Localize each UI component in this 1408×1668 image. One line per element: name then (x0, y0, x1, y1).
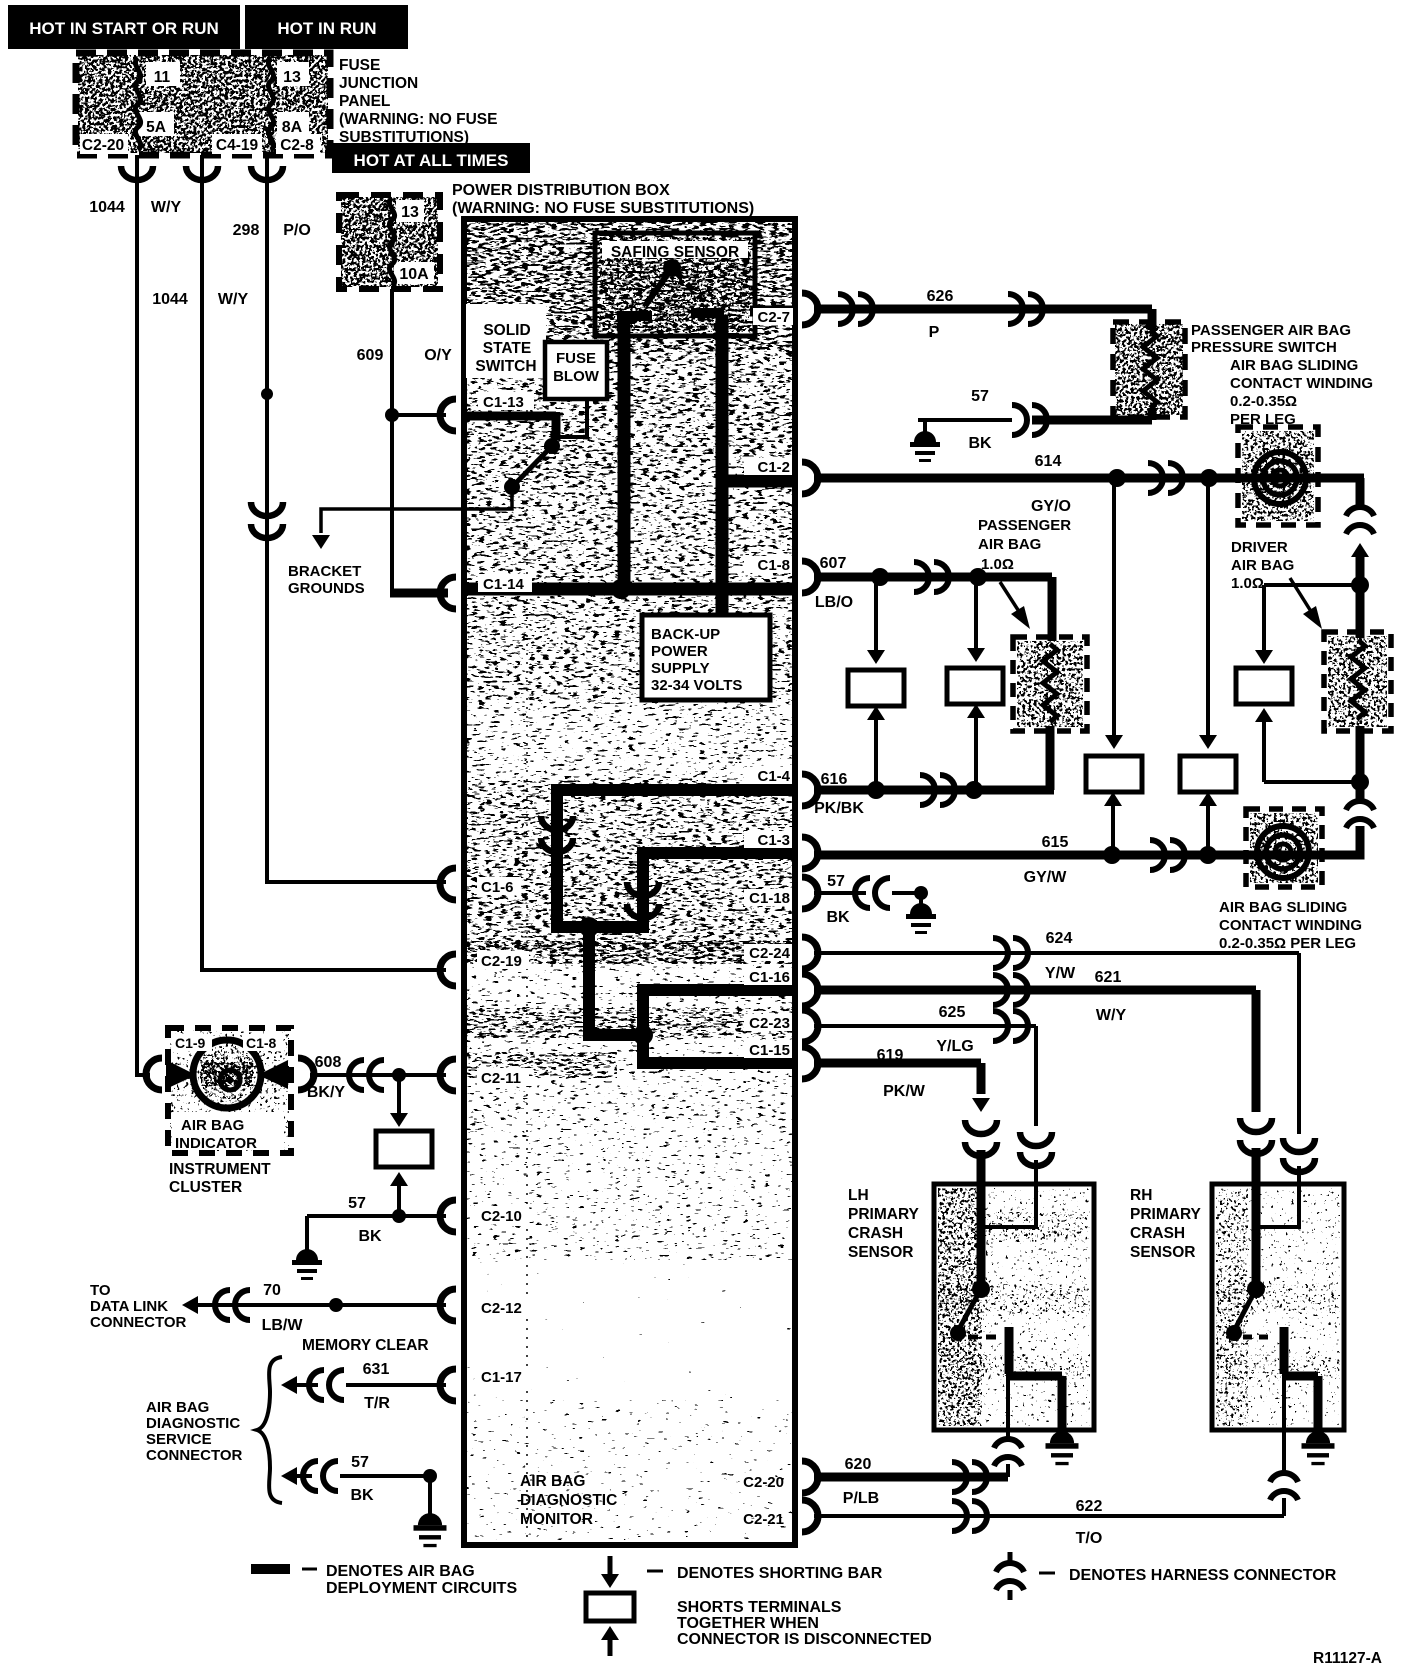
power label HOT IN START OR RUN (8, 5, 240, 49)
svg-text:C1-17: C1-17 (481, 1369, 522, 1386)
svg-text:AIR BAG: AIR BAG (520, 1473, 585, 1490)
svg-text:C2-8: C2-8 (280, 137, 314, 154)
pin C2-19 (440, 954, 456, 986)
wire 57 BK upper (918, 418, 1012, 422)
svg-text:11: 11 (154, 69, 171, 86)
pin indicator left (146, 1058, 162, 1090)
svg-text:SAFING SENSOR: SAFING SENSOR (611, 244, 739, 261)
wire trunk V2 (637, 853, 649, 927)
wire 70 LB/W (182, 1296, 198, 1314)
junction driver top (1351, 576, 1369, 594)
svg-text:Y/LG: Y/LG (936, 1038, 973, 1055)
wire 57 BK cluster (307, 1214, 446, 1218)
label C1-17 (477, 1367, 529, 1385)
svg-text:AIR BAG: AIR BAG (146, 1399, 209, 1416)
wire C1-14 C1-8 bar (464, 583, 795, 596)
svg-text:SWITCH: SWITCH (475, 358, 536, 375)
solid state switch label (466, 304, 546, 378)
svg-text:TOGETHER WHEN: TOGETHER WHEN (677, 1615, 819, 1632)
pin C1-6 (440, 868, 456, 900)
svg-text:BRACKET: BRACKET (288, 563, 361, 580)
pin C2-21 (802, 1500, 818, 1532)
passenger air bag pointer (1000, 582, 1020, 613)
svg-text:616: 616 (821, 771, 848, 788)
wire 631 T/R (281, 1376, 297, 1394)
svg-text:AIR BAG: AIR BAG (181, 1117, 244, 1134)
svg-text:5A: 5A (146, 119, 166, 136)
svg-text:C1-4: C1-4 (757, 768, 790, 785)
svg-text:DRIVER: DRIVER (1231, 539, 1288, 556)
splice 615 a (1103, 846, 1121, 864)
LH sensor ground leg (1058, 1376, 1067, 1430)
junction dot H2 (633, 1025, 653, 1045)
svg-text:620: 620 (845, 1456, 872, 1473)
svg-text:57: 57 (351, 1454, 369, 1471)
svg-text:SERVICE: SERVICE (146, 1431, 212, 1448)
svg-text:13: 13 (401, 204, 419, 221)
svg-text:BACK-UP: BACK-UP (651, 626, 720, 643)
label C2-10 (477, 1206, 529, 1224)
ground G LH (1046, 1431, 1079, 1465)
passenger air bag pressure switch (1148, 309, 1157, 330)
svg-text:SENSOR: SENSOR (1130, 1244, 1195, 1261)
connector on V1 (541, 816, 573, 830)
label C1-8 (744, 556, 792, 573)
svg-text:P/O: P/O (283, 222, 311, 239)
svg-text:HOT IN RUN: HOT IN RUN (277, 19, 376, 38)
driver air bag pointer (1290, 578, 1312, 613)
bracket grounds arrow (321, 509, 464, 533)
label C1-15 (744, 1041, 792, 1058)
svg-text:MONITOR: MONITOR (520, 1511, 593, 1528)
svg-text:C2-12: C2-12 (481, 1300, 522, 1317)
splice 608 (392, 1068, 406, 1082)
svg-text:GY/O: GY/O (1031, 498, 1071, 515)
svg-text:C1-8: C1-8 (246, 1035, 277, 1051)
ground G upper (923, 420, 927, 437)
wire H2 (583, 1029, 649, 1041)
safing sensor box (599, 237, 751, 332)
wire 624 drop (1297, 953, 1301, 1134)
legend shorting bar label (647, 1570, 663, 1573)
svg-text:626: 626 (927, 288, 954, 305)
svg-text:C1-3: C1-3 (757, 832, 790, 849)
label C1-14 (478, 574, 532, 592)
wire trunk V1 (551, 790, 563, 927)
scan fold line (526, 230, 528, 1540)
wire 615 GY/W (814, 851, 1248, 860)
fuse junction panel box (78, 55, 328, 153)
harness connector driver bottom (1346, 801, 1374, 810)
svg-text:RH: RH (1130, 1187, 1152, 1204)
shorting bar SB2 (947, 668, 1003, 704)
shorting bar SB2 arrows (974, 582, 978, 654)
svg-text:622: 622 (1076, 1498, 1103, 1515)
terminal C2-20 (80, 134, 128, 154)
RH sensor connector leg (1282, 1374, 1286, 1472)
solid state switch to bracket ground (464, 487, 512, 509)
wire 57 BK C1-18 (814, 891, 866, 895)
connector on V2 (627, 882, 659, 896)
wire C1-15 bar (637, 1057, 795, 1069)
splice 70 (329, 1298, 343, 1312)
pin C1-8 (802, 561, 818, 593)
shorting bar SB3 arrows (1112, 483, 1116, 741)
solid state switch contact (544, 438, 560, 454)
svg-text:C1-9: C1-9 (175, 1035, 206, 1051)
svg-text:AIR BAG SLIDING: AIR BAG SLIDING (1230, 357, 1358, 374)
safing sensor switch (663, 259, 681, 277)
label C1-18 (744, 889, 792, 906)
svg-text:INSTRUMENT: INSTRUMENT (169, 1161, 271, 1178)
svg-text:C2-11: C2-11 (481, 1070, 521, 1087)
wire 624 Y/W (814, 951, 1299, 955)
pin C1-16 (802, 974, 818, 1006)
connector cup under C4-19 (186, 166, 218, 180)
splice on P/O wire (261, 388, 273, 400)
fuse 11 5A (146, 62, 180, 86)
svg-text:CONNECTOR: CONNECTOR (146, 1447, 243, 1464)
svg-text:LB/O: LB/O (815, 594, 853, 611)
wire trunk V3 (583, 927, 595, 1035)
pin C2-24 (802, 937, 818, 969)
svg-text:C1-14: C1-14 (483, 576, 525, 593)
RH sensor feed (1252, 1184, 1261, 1291)
driver shorting branch (1264, 583, 1356, 587)
connector cup under C2-20 (121, 166, 153, 180)
svg-text:631: 631 (363, 1361, 390, 1378)
svg-text:W/Y: W/Y (218, 291, 249, 308)
junction dot on bar (611, 579, 631, 599)
shorting bar SB4 (1180, 756, 1236, 792)
svg-text:JUNCTION: JUNCTION (339, 75, 418, 92)
svg-text:P/LB: P/LB (843, 1490, 879, 1507)
svg-text:PRIMARY: PRIMARY (1130, 1206, 1202, 1223)
shorting bar SB1 arrows (874, 582, 878, 656)
wire 1044 W/Y second (202, 155, 446, 970)
svg-text:C2-20: C2-20 (82, 137, 124, 154)
wire 625 drop (1034, 1026, 1038, 1126)
splice 616 a (867, 781, 885, 799)
wire 620 P/LB (814, 1473, 1008, 1482)
svg-text:621: 621 (1095, 969, 1122, 986)
LH sensor contact bar (1005, 1327, 1014, 1374)
power label HOT IN RUN (245, 5, 408, 49)
air bag diagnostic monitor box border (464, 219, 795, 1545)
wire safing right leg (716, 315, 729, 594)
wire H1 (551, 921, 649, 933)
power distribution fuse 13 10A (341, 197, 438, 287)
svg-text:607: 607 (820, 555, 847, 572)
svg-text:P: P (929, 324, 940, 341)
svg-text:DEPLOYMENT CIRCUITS: DEPLOYMENT CIRCUITS (326, 1580, 517, 1597)
svg-text:C1-18: C1-18 (749, 890, 790, 907)
wire 607 LB/O (814, 573, 1052, 582)
label C2-24 (744, 944, 792, 961)
wire 619 drop (977, 1063, 986, 1094)
wire 609 O/Y (390, 289, 394, 592)
svg-text:298: 298 (233, 222, 260, 239)
svg-text:DIAGNOSTIC: DIAGNOSTIC (520, 1492, 617, 1509)
svg-text:CLUSTER: CLUSTER (169, 1179, 242, 1196)
ground G C1-18 (919, 893, 923, 908)
pin C2-7 (802, 293, 818, 325)
svg-text:625: 625 (939, 1004, 966, 1021)
connector 624 (1283, 1138, 1315, 1152)
pin C2-23 (802, 1010, 818, 1042)
label C1-2 (744, 458, 792, 475)
fuse blow box (545, 342, 607, 399)
label C1-3 (744, 831, 792, 848)
wire 298 P/O (267, 155, 446, 882)
arrow up driver column (1351, 543, 1369, 557)
pin C1-18 (802, 877, 818, 909)
label C1-8 indicator (243, 1034, 283, 1051)
air bag sliding contact winding top (1242, 431, 1314, 521)
svg-text:AIR BAG: AIR BAG (1231, 557, 1294, 574)
air bag indicator bulb (198, 1045, 256, 1103)
svg-text:C1-16: C1-16 (749, 969, 790, 986)
svg-text:13: 13 (283, 69, 301, 86)
svg-text:SUPPLY: SUPPLY (651, 660, 710, 677)
svg-text:57: 57 (348, 1195, 366, 1212)
ground G RH (1302, 1431, 1335, 1465)
svg-text:BK: BK (968, 435, 992, 452)
wire C1-2 bar (722, 475, 795, 488)
svg-text:DATA LINK: DATA LINK (90, 1298, 168, 1315)
label C2-12 (477, 1298, 529, 1316)
service connector brace (257, 1357, 282, 1503)
svg-text:CRASH: CRASH (848, 1225, 903, 1242)
svg-text:(WARNING: NO FUSE SUBSTITUTION: (WARNING: NO FUSE SUBSTITUTIONS) (452, 200, 754, 217)
LH sensor switch (972, 1280, 990, 1298)
splice 616 b (965, 781, 983, 799)
wire C1-16 bar (637, 984, 795, 996)
RH sensor 624 feed (1260, 1184, 1299, 1227)
driver column elbow (1318, 826, 1360, 855)
svg-text:CONNECTOR: CONNECTOR (90, 1314, 187, 1331)
air bag diagnostic monitor box interior (467, 222, 793, 352)
svg-text:LH: LH (848, 1187, 869, 1204)
svg-text:T/R: T/R (364, 1395, 390, 1412)
svg-text:1044: 1044 (152, 291, 188, 308)
wire 608 BK/Y (310, 1073, 446, 1077)
svg-text:PANEL: PANEL (339, 93, 390, 110)
terminal C2-8 (276, 134, 320, 154)
wire 622 T/O (814, 1514, 1284, 1518)
splice 614 b (1200, 469, 1218, 487)
pin C1-3 (802, 837, 818, 869)
svg-text:AIR BAG: AIR BAG (978, 536, 1041, 553)
driver air bag squib (1356, 585, 1365, 638)
svg-text:(WARNING: NO FUSE: (WARNING: NO FUSE (339, 111, 497, 128)
svg-text:CONTACT WINDING: CONTACT WINDING (1219, 917, 1362, 934)
splice 607 b (969, 568, 987, 586)
harness connector LH (994, 1439, 1022, 1448)
wire C1-4 bar (551, 784, 795, 796)
svg-text:DENOTES AIR BAG: DENOTES AIR BAG (326, 1563, 475, 1580)
svg-text:AIR BAG SLIDING: AIR BAG SLIDING (1219, 899, 1347, 916)
svg-text:624: 624 (1046, 930, 1073, 947)
svg-text:1.0Ω: 1.0Ω (1231, 575, 1264, 592)
wire C1-14 feed (390, 589, 448, 598)
fuse blow stub (558, 399, 587, 437)
svg-text:C1-13: C1-13 (483, 394, 524, 411)
legend harness connector symbol (1008, 1552, 1013, 1562)
shorting bar SB1 (848, 670, 904, 706)
air bag indicator box (170, 1030, 289, 1151)
svg-text:POWER DISTRIBUTION BOX: POWER DISTRIBUTION BOX (452, 182, 670, 199)
legend shorting bar symbol (608, 1556, 613, 1576)
label C1-13 (478, 392, 534, 410)
harness connector RH (1270, 1473, 1298, 1482)
wire backup supply feed (716, 589, 729, 617)
svg-text:SOLID: SOLID (483, 322, 530, 339)
svg-text:70: 70 (263, 1282, 281, 1299)
svg-text:0.2-0.35Ω: 0.2-0.35Ω (1230, 393, 1297, 410)
svg-text:HOT AT ALL TIMES: HOT AT ALL TIMES (354, 151, 509, 170)
shorting bar SB3 (1086, 756, 1142, 792)
LH sensor 625 feed (985, 1184, 1036, 1227)
svg-text:57: 57 (971, 388, 989, 405)
connector 619 (965, 1120, 997, 1134)
svg-text:C4-19: C4-19 (216, 137, 259, 154)
svg-text:CONNECTOR IS DISCONNECTED: CONNECTOR IS DISCONNECTED (677, 1631, 932, 1648)
splice 57 service (423, 1469, 437, 1483)
svg-text:619: 619 (877, 1047, 904, 1064)
svg-text:609: 609 (357, 347, 384, 364)
svg-text:C2-10: C2-10 (481, 1208, 522, 1225)
pin C1-15 (802, 1047, 818, 1079)
RH sensor contact bar (1280, 1327, 1289, 1374)
svg-text:614: 614 (1035, 453, 1062, 470)
svg-text:BK/Y: BK/Y (307, 1084, 346, 1101)
svg-text:PK/W: PK/W (883, 1083, 926, 1100)
svg-text:LB/W: LB/W (262, 1317, 304, 1334)
svg-text:615: 615 (1042, 834, 1069, 851)
driver column to lower winding (1356, 782, 1365, 802)
air bag sliding contact winding bottom (1250, 813, 1318, 883)
power label HOT AT ALL TIMES (332, 143, 530, 173)
svg-text:32-34 VOLTS: 32-34 VOLTS (651, 677, 742, 694)
svg-text:C2-21: C2-21 (743, 1511, 784, 1528)
svg-text:0.2-0.35Ω PER LEG: 0.2-0.35Ω PER LEG (1219, 935, 1356, 952)
label C1-6 (477, 877, 521, 895)
label C2-7 (753, 308, 793, 325)
wire 619 PK/W (814, 1059, 981, 1068)
legend deployment circuits (251, 1564, 290, 1574)
pin C1-14 (440, 577, 456, 609)
splice 57 cluster (392, 1209, 406, 1223)
svg-text:BK: BK (826, 909, 850, 926)
svg-text:CRASH: CRASH (1130, 1225, 1185, 1242)
wire 626 P (814, 305, 1152, 314)
svg-text:SENSOR: SENSOR (848, 1244, 913, 1261)
connector 625 (1020, 1132, 1052, 1146)
junction driver bottom (1351, 773, 1369, 791)
RH sensor switch (1247, 1280, 1265, 1298)
wire 1044 W/Y left (137, 155, 150, 1075)
svg-text:SHORTS TERMINALS: SHORTS TERMINALS (677, 1599, 842, 1616)
pin C1-2 (802, 462, 818, 494)
svg-text:C1-2: C1-2 (757, 459, 790, 476)
wire C1-13 internal (464, 412, 556, 421)
pin C2-10 (440, 1200, 456, 1232)
svg-text:W/Y: W/Y (1096, 1007, 1127, 1024)
svg-text:C2-24: C2-24 (749, 945, 791, 962)
wire 614 GY/O (814, 474, 1240, 483)
label C1-4 (744, 767, 792, 784)
svg-text:GROUNDS: GROUNDS (288, 580, 365, 597)
svg-text:HOT IN START OR RUN: HOT IN START OR RUN (29, 19, 219, 38)
wire 621 drop (1252, 990, 1261, 1112)
svg-text:PK/BK: PK/BK (814, 800, 864, 817)
wire C2-7 feed (750, 306, 795, 317)
label C2-19 (477, 951, 529, 969)
svg-text:DENOTES HARNESS CONNECTOR: DENOTES HARNESS CONNECTOR (1069, 1567, 1337, 1584)
svg-text:GY/W: GY/W (1024, 869, 1068, 886)
svg-text:C2-23: C2-23 (749, 1015, 790, 1032)
back-up power supply box (642, 615, 770, 700)
splice 57 C1-18 (914, 886, 928, 900)
label C1-16 (744, 968, 792, 985)
safing sensor terminals (617, 311, 652, 321)
svg-text:FUSE: FUSE (556, 350, 596, 367)
svg-text:FUSE: FUSE (339, 57, 380, 74)
splice 607 a (871, 568, 889, 586)
pin C2-11 (440, 1059, 456, 1091)
wire C1-3 bar (637, 847, 795, 859)
svg-text:PASSENGER AIR BAG: PASSENGER AIR BAG (1191, 322, 1351, 339)
driver shorting branch lower (1255, 708, 1273, 722)
ground G service (428, 1476, 432, 1516)
shorting bar SB4 arrows (1206, 483, 1210, 741)
connector 621 (1240, 1118, 1272, 1132)
wire 57 BK service (281, 1467, 297, 1485)
svg-text:CONTACT WINDING: CONTACT WINDING (1230, 375, 1373, 392)
svg-text:608: 608 (315, 1054, 342, 1071)
LH sensor feed (977, 1184, 986, 1291)
wire winding to driver column (1316, 474, 1364, 483)
wire safing left leg (618, 318, 631, 588)
harness connector driver top (1346, 507, 1374, 516)
label C2-11 (477, 1068, 529, 1086)
svg-text:8A: 8A (282, 119, 303, 136)
wire trunk V4 (637, 990, 649, 1063)
svg-text:Y/W: Y/W (1045, 965, 1076, 982)
pin C1-17 (440, 1369, 456, 1401)
ground G cluster (305, 1216, 309, 1252)
svg-text:R11127-A: R11127-A (1313, 1650, 1382, 1667)
svg-text:BLOW: BLOW (553, 368, 600, 385)
RH primary crash sensor box (1216, 1188, 1340, 1426)
svg-text:C1-6: C1-6 (481, 879, 514, 896)
splice 615 b (1199, 846, 1217, 864)
RH sensor ground leg (1314, 1376, 1323, 1430)
fuse 13 8A (277, 62, 309, 86)
shorting bar SB5 (376, 1131, 432, 1167)
label C2-23 (744, 1014, 792, 1031)
junction dot H1 (579, 917, 599, 937)
svg-text:DIAGNOSTIC: DIAGNOSTIC (146, 1415, 240, 1432)
svg-text:INDICATOR: INDICATOR (175, 1135, 257, 1152)
label C1-9 (172, 1034, 212, 1051)
svg-text:C2-19: C2-19 (481, 953, 522, 970)
svg-text:MEMORY CLEAR: MEMORY CLEAR (302, 1337, 429, 1354)
svg-text:C1-8: C1-8 (757, 557, 790, 574)
terminal C4-19 (212, 134, 262, 154)
svg-text:C2-7: C2-7 (757, 309, 790, 326)
